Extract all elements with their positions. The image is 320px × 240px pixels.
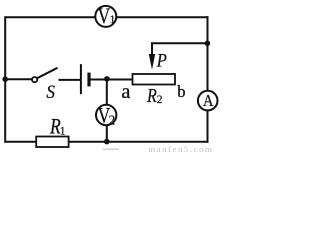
wire slider branch vertical <box>151 42 153 58</box>
wire bottom right <box>69 141 209 143</box>
svg-text:2: 2 <box>109 112 116 127</box>
wire middle left to switch <box>5 78 32 80</box>
wire right side upper <box>207 16 209 91</box>
wire right side lower <box>207 110 209 142</box>
wire V2 down <box>106 125 108 141</box>
label R2 <box>146 84 163 106</box>
rheostat R2 <box>133 74 176 85</box>
svg-text:a: a <box>121 81 130 103</box>
watermark dash <box>103 148 119 150</box>
svg-text:R: R <box>146 84 157 106</box>
battery short plate <box>87 73 90 87</box>
wire switch to battery <box>59 79 81 81</box>
svg-text:P: P <box>156 50 167 71</box>
wire top-right segment <box>116 16 209 18</box>
node junction left <box>2 76 8 82</box>
battery long plate <box>80 64 82 94</box>
node junction on right wire <box>205 41 211 47</box>
svg-text:2: 2 <box>157 94 163 106</box>
svg-text:b: b <box>177 82 185 101</box>
wire top-left segment <box>5 16 96 18</box>
label R1 <box>49 114 66 139</box>
ammeter A <box>198 91 218 111</box>
svg-text:1: 1 <box>110 14 116 26</box>
wire left side <box>4 16 6 143</box>
wire bottom left <box>5 141 36 143</box>
switch blade <box>37 68 58 79</box>
voltmeter V2 <box>96 104 116 128</box>
resistor R1 <box>36 137 68 148</box>
node junction bottom <box>104 139 110 145</box>
wire slider branch horizontal <box>151 42 207 44</box>
switch pivot circle <box>32 77 37 82</box>
slider arrow <box>149 54 155 70</box>
wire V2 up <box>106 79 108 105</box>
voltmeter V1 <box>95 4 116 28</box>
svg-text:manfen5.com: manfen5.com <box>148 144 212 153</box>
wire battery to rheostat <box>89 79 133 81</box>
svg-text:S: S <box>46 81 55 102</box>
svg-text:1: 1 <box>60 125 66 137</box>
node junction above V2 <box>104 76 110 82</box>
svg-text:A: A <box>203 92 214 110</box>
